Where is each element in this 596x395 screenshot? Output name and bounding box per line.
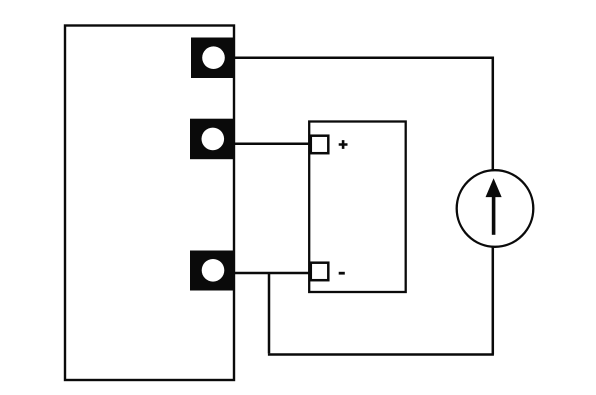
terminal pad 3 xyxy=(190,251,234,291)
label + xyxy=(339,140,348,149)
wire junction drop from bottom net xyxy=(268,273,271,353)
pin square - xyxy=(311,263,329,281)
connector block J1 (large rectangle) xyxy=(65,26,234,381)
wire bottom horizontal run xyxy=(268,353,494,356)
current source arrow xyxy=(486,180,501,235)
wire from terminal 1 to current source (top net) xyxy=(234,57,493,172)
terminal pad 1 xyxy=(191,38,234,79)
module M1 (middle rectangle) xyxy=(309,122,406,293)
current source CS1 circle xyxy=(457,170,534,247)
wire from terminal 2 to + pin xyxy=(233,143,309,146)
pin square + xyxy=(311,136,329,154)
wire riser to current source bottom xyxy=(492,246,495,355)
terminal pad 2 xyxy=(190,119,234,160)
label - xyxy=(339,272,345,275)
wire from terminal 3 to - pin xyxy=(233,272,310,275)
